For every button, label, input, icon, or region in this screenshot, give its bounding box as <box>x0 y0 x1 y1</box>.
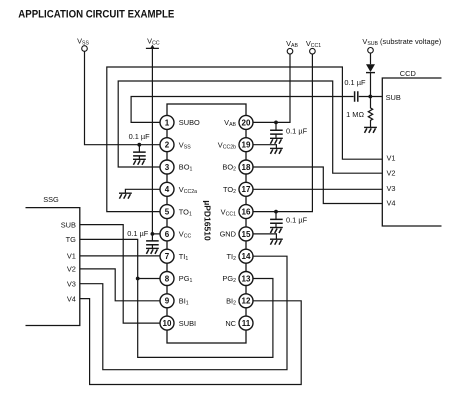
svg-text:10: 10 <box>163 319 172 328</box>
svg-text:V1: V1 <box>67 252 76 261</box>
svg-text:0.1 µF: 0.1 µF <box>127 229 149 238</box>
svg-text:BI1: BI1 <box>179 297 189 307</box>
svg-text:0.1 µF: 0.1 µF <box>129 132 151 141</box>
svg-text:CCD: CCD <box>400 69 416 78</box>
svg-text:19: 19 <box>242 141 251 150</box>
svg-text:1 MΩ: 1 MΩ <box>346 110 364 119</box>
svg-text:5: 5 <box>165 208 170 217</box>
svg-text:SSG: SSG <box>43 195 59 204</box>
svg-text:PG2: PG2 <box>222 274 236 284</box>
svg-text:VCC1: VCC1 <box>221 207 236 217</box>
svg-text:15: 15 <box>242 230 251 239</box>
svg-text:SUBO: SUBO <box>179 118 200 127</box>
svg-text:0.1 µF: 0.1 µF <box>286 215 308 224</box>
svg-text:VCC2b: VCC2b <box>218 140 236 150</box>
svg-text:VCC2a: VCC2a <box>179 185 197 195</box>
svg-text:9: 9 <box>165 297 170 306</box>
svg-text:SUB: SUB <box>61 220 76 229</box>
svg-text:VSS: VSS <box>179 140 191 150</box>
svg-text:PG1: PG1 <box>179 274 193 284</box>
svg-text:17: 17 <box>242 185 251 194</box>
svg-text:VSUB (substrate voltage): VSUB (substrate voltage) <box>362 37 441 47</box>
svg-text:V2: V2 <box>387 169 396 178</box>
svg-text:0.1 µF: 0.1 µF <box>344 78 366 87</box>
svg-text:V1: V1 <box>387 154 396 163</box>
svg-text:VAB: VAB <box>286 39 298 49</box>
svg-text:BI2: BI2 <box>226 297 236 307</box>
svg-text:NC: NC <box>225 319 236 328</box>
svg-text:µPD16510: µPD16510 <box>203 200 213 241</box>
svg-text:VCC: VCC <box>147 36 160 46</box>
svg-text:1: 1 <box>165 118 170 127</box>
svg-text:APPLICATION CIRCUIT EXAMPLE: APPLICATION CIRCUIT EXAMPLE <box>18 8 174 20</box>
svg-text:TO1: TO1 <box>179 207 192 217</box>
svg-text:TI1: TI1 <box>179 252 189 262</box>
svg-text:GND: GND <box>220 230 236 239</box>
svg-text:0.1 µF: 0.1 µF <box>286 127 308 136</box>
svg-text:13: 13 <box>242 274 251 283</box>
svg-text:VCC: VCC <box>179 230 192 240</box>
svg-text:4: 4 <box>165 185 170 194</box>
svg-text:V3: V3 <box>67 279 76 288</box>
svg-text:18: 18 <box>242 163 251 172</box>
svg-text:16: 16 <box>242 208 251 217</box>
svg-text:BO1: BO1 <box>179 163 193 173</box>
svg-text:3: 3 <box>165 163 170 172</box>
svg-text:12: 12 <box>242 297 251 306</box>
svg-text:BO2: BO2 <box>222 163 236 173</box>
svg-text:V4: V4 <box>67 294 76 303</box>
svg-text:VSS: VSS <box>77 36 89 46</box>
svg-text:2: 2 <box>165 141 170 150</box>
svg-text:6: 6 <box>165 230 170 239</box>
svg-text:8: 8 <box>165 274 170 283</box>
svg-text:V2: V2 <box>67 265 76 274</box>
svg-text:V4: V4 <box>387 199 396 208</box>
svg-text:VAB: VAB <box>224 118 236 128</box>
svg-text:TO2: TO2 <box>223 185 236 195</box>
svg-text:11: 11 <box>242 319 251 328</box>
svg-text:VCC1: VCC1 <box>306 39 321 49</box>
svg-text:14: 14 <box>242 252 251 261</box>
svg-text:20: 20 <box>242 118 251 127</box>
svg-text:7: 7 <box>165 252 170 261</box>
svg-text:TG: TG <box>66 235 77 244</box>
svg-text:SUBI: SUBI <box>179 319 196 328</box>
svg-text:SUB: SUB <box>386 93 401 102</box>
svg-text:TI2: TI2 <box>227 252 237 262</box>
svg-text:V3: V3 <box>387 184 396 193</box>
